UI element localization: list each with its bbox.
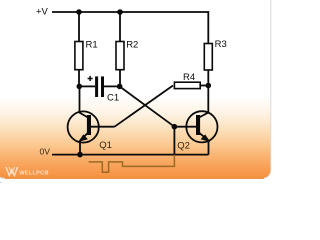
wire R2 lower lead bbox=[119, 70, 121, 87]
transistor Q1 bbox=[68, 86, 115, 154]
svg-text:R1: R1 bbox=[86, 40, 98, 51]
wire R1 upper lead bbox=[78, 12, 80, 42]
svg-text:C1: C1 bbox=[107, 93, 119, 104]
svg-text:R2: R2 bbox=[126, 40, 138, 51]
resistor R3 bbox=[204, 39, 226, 70]
wire R4 right lead bbox=[201, 85, 209, 87]
logo WELLPCB bbox=[6, 167, 49, 176]
wire R1 lower lead bbox=[78, 70, 80, 87]
junction dot Q1 emitter bbox=[77, 152, 83, 158]
svg-text:R3: R3 bbox=[215, 39, 227, 50]
wire output tap bbox=[173, 127, 175, 155]
svg-text:Q2: Q2 bbox=[177, 140, 190, 151]
wire R3 top drop bbox=[207, 11, 209, 43]
junction dot C1 right bbox=[117, 84, 123, 90]
wire R2 upper lead bbox=[119, 12, 121, 42]
capacitor C1 bbox=[88, 76, 120, 104]
junction dot top R2 bbox=[117, 9, 123, 15]
resistor R1 bbox=[75, 40, 98, 70]
wire C1 left lead bbox=[79, 85, 95, 87]
svg-text:R4: R4 bbox=[183, 72, 195, 83]
wire 0V rail bbox=[52, 154, 209, 156]
wire cross coupling C1 to Q2 base bbox=[120, 86, 175, 126]
svg-text:Q1: Q1 bbox=[99, 140, 112, 151]
junction dot top R1 bbox=[76, 9, 82, 15]
transistor Q2 bbox=[174, 111, 217, 154]
wire cross coupling Q1 base to R4 bbox=[115, 86, 174, 127]
svg-text:0V: 0V bbox=[40, 147, 51, 157]
wire R3 lower lead bbox=[207, 70, 209, 112]
wire output waveform bbox=[89, 155, 175, 173]
wire C1 right lead bbox=[104, 85, 120, 87]
junction dot R3 R4 bbox=[206, 83, 212, 89]
wire top rail bbox=[52, 11, 208, 13]
svg-text:+V: +V bbox=[36, 7, 49, 18]
decorative corner chip bbox=[0, 181, 2, 188]
svg-text:WELLPCB: WELLPCB bbox=[19, 170, 49, 176]
resistor R2 bbox=[116, 40, 138, 70]
junction dot Q2 base bbox=[172, 124, 178, 130]
resistor R4 bbox=[174, 72, 200, 89]
junction dot C1 left bbox=[77, 84, 83, 90]
